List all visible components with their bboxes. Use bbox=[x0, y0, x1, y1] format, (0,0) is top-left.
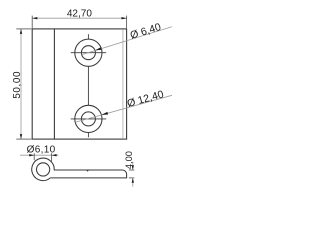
front view outline plate bbox=[32, 29, 126, 139]
dimension 42,70 bbox=[32, 17, 126, 19]
tangent edge (fillet) gray line bbox=[122, 29, 124, 138]
dimension 6,10 side view bbox=[20, 154, 59, 156]
bottom hole horizontal center mark bbox=[71, 118, 107, 120]
centerline connector between holes bbox=[87, 66, 89, 105]
leader diameter 6,40 bbox=[82, 27, 172, 55]
svg-text:Ø 12,40: Ø 12,40 bbox=[126, 88, 165, 110]
svg-text:50,00: 50,00 bbox=[12, 71, 23, 99]
dimension 50,00 bbox=[20, 29, 22, 139]
top hole horizontal center mark bbox=[71, 52, 107, 54]
bottom hole vertical tick below bbox=[87, 133, 89, 138]
side view curl outer arc bbox=[32, 158, 55, 181]
curl tangent edge line bbox=[53, 29, 55, 139]
hole top counterbore outer circle bbox=[75, 39, 102, 66]
svg-text:42,70: 42,70 bbox=[67, 9, 92, 20]
leader diameter 12,40 bbox=[75, 95, 172, 122]
hole bottom inner circle bbox=[81, 112, 95, 126]
hole top inner circle bbox=[81, 46, 95, 60]
svg-text:Ø 6,40: Ø 6,40 bbox=[129, 21, 163, 42]
center marks bbox=[71, 34, 107, 137]
svg-text:4,00: 4,00 bbox=[124, 151, 134, 169]
svg-text:Ø6,10: Ø6,10 bbox=[27, 144, 56, 155]
top hole vertical tick above bbox=[87, 34, 89, 39]
hole bottom counterbore outer circle bbox=[75, 105, 102, 132]
side view curl inner circle bbox=[37, 163, 50, 176]
dimension 4,00 side view bbox=[129, 170, 134, 178]
notch on bar top edge at hole axis bbox=[87, 170, 89, 171]
side view bar outline bbox=[50, 170, 126, 178]
